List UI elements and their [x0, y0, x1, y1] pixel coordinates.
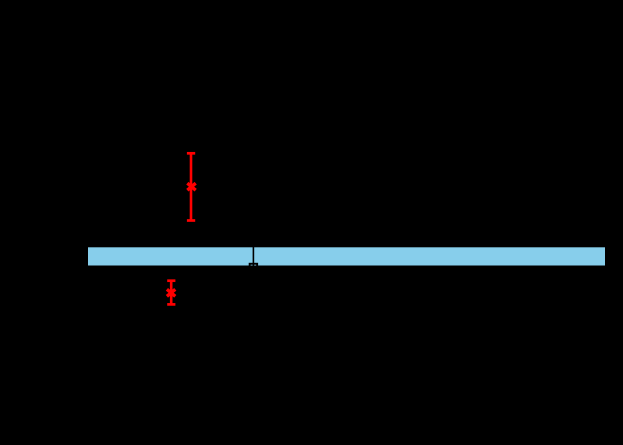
red error bar 2 vertical line: [170, 281, 173, 305]
red error bar 1 vertical line: [190, 153, 193, 220]
black hollow square marker: [250, 264, 258, 272]
red error bar 1 bottom cap: [187, 219, 195, 222]
red error bar 1 top cap: [187, 152, 195, 155]
red X marker 2: [167, 289, 175, 296]
red X marker 1: [187, 183, 195, 190]
blue band (shaded horizontal span): [88, 247, 605, 265]
red error bar 2 bottom cap: [167, 303, 175, 306]
red error bar 2 top cap: [167, 279, 175, 282]
black error bar line at node x=253: [252, 238, 254, 268]
